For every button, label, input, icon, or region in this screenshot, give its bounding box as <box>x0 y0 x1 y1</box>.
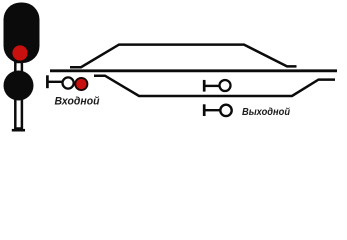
svg-text:Выходной: Выходной <box>242 107 291 118</box>
svg-text:Входной: Входной <box>55 95 100 107</box>
